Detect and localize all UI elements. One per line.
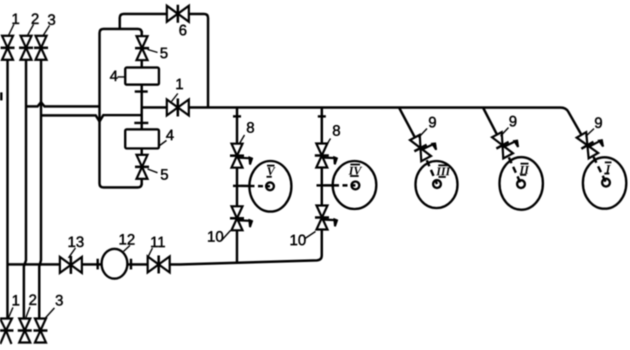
svg-text:5: 5 [160, 45, 168, 62]
svg-text:4: 4 [166, 127, 174, 144]
svg-text:3: 3 [55, 292, 63, 309]
svg-text:2: 2 [29, 292, 37, 309]
svg-text:9: 9 [509, 113, 517, 130]
svg-text:8: 8 [246, 120, 254, 137]
svg-text:10: 10 [207, 229, 224, 246]
svg-text:13: 13 [67, 234, 84, 251]
svg-text:1: 1 [11, 11, 19, 28]
svg-text:2: 2 [31, 11, 39, 28]
svg-text:1: 1 [12, 292, 20, 309]
svg-text:4: 4 [110, 68, 118, 85]
svg-text:12: 12 [119, 231, 136, 248]
svg-text:10: 10 [289, 232, 306, 249]
svg-text:5: 5 [160, 167, 168, 184]
svg-text:11: 11 [150, 234, 166, 251]
svg-text:6: 6 [179, 22, 187, 39]
svg-text:9: 9 [428, 114, 436, 131]
svg-text:1: 1 [175, 76, 183, 93]
svg-text:9: 9 [594, 115, 602, 132]
svg-text:8: 8 [332, 123, 340, 140]
svg-text:3: 3 [47, 12, 55, 29]
